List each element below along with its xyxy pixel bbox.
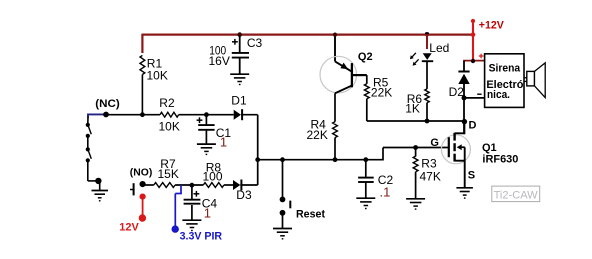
capacitor C4 [184,199,201,201]
node siren minus junction [462,95,467,100]
svg-text:3.3V PIR: 3.3V PIR [180,230,223,242]
resistor R3 [413,156,418,172]
svg-text:22K: 22K [307,128,328,142]
svg-text:10K: 10K [147,69,168,83]
wire R3 top [415,148,417,157]
wire C2 bottom stem [365,182,367,198]
label siren minus sign [477,93,481,95]
node R4 bus junction [333,157,338,162]
node C3 rail junction [237,32,242,37]
svg-text:10K: 10K [159,119,180,133]
node NO top contact [140,181,146,187]
svg-text:Led: Led [429,41,449,55]
wire D2 top [463,61,465,71]
transistor Q1 channel [453,133,455,141]
resistor R5 [364,84,369,99]
transistor Q1 body circle [441,135,470,164]
pushbutton Reset actuator [289,201,291,209]
node siren plus junction [471,59,475,63]
switch S2 lever [89,151,92,159]
wire R1 bottom [141,75,143,115]
wire row A right [241,114,258,116]
svg-text:1: 1 [220,134,227,149]
wire row A left [106,114,160,116]
node rail-12V junction [471,32,476,37]
capacitor C2 [358,177,374,179]
svg-text:+12V: +12V [479,20,505,32]
node C4 top [190,183,195,188]
resistor R1 [140,55,145,74]
node NC [103,112,109,118]
wire chain gnd stem [99,181,101,190]
node C1 top [204,112,209,117]
svg-text:iRF630: iRF630 [482,154,518,166]
led light arrow 1 [412,53,416,57]
wire C4 top stem [191,185,193,199]
transistor Q2 base lead [352,74,367,76]
wire row A mid [179,114,234,116]
svg-text:15K: 15K [158,167,179,181]
wire NC blue stub [88,113,106,115]
svg-text:D: D [469,119,477,131]
node bus left [255,157,260,162]
wire Led to R6 [426,62,428,89]
wire row B left [143,184,154,186]
wire R6 bottom [426,103,428,121]
wire D2 to D node [463,84,465,133]
svg-text:.1: .1 [380,185,391,200]
node R1 junction [140,112,145,117]
wire gate bus [383,147,449,149]
resistor R8 [203,183,224,188]
ground Q1 source [456,187,473,189]
svg-text:R3: R3 [421,156,437,170]
wire row B right1 [224,184,233,186]
wire NO 12V red [142,197,144,218]
wire +12V terminal drop [472,21,474,61]
diode D3 [233,180,240,190]
capacitor C3 [232,52,249,54]
wire siren plus [463,60,484,62]
svg-text:12V: 12V [119,221,139,233]
svg-text:G: G [430,137,439,149]
switch S2 contact b [86,158,90,162]
node C2 bus junction [363,157,368,162]
switch S1 lever [89,127,92,135]
svg-text:16V: 16V [209,54,230,68]
capacitor C4 plus sign [194,193,200,195]
node chain ground [95,178,101,184]
transistor Q1 gate bar [448,137,450,157]
pushbutton Reset contact a [280,197,286,203]
wire Q2 collector drop [334,93,336,121]
label siren plus sign [479,55,484,57]
wire R5 bottom [366,99,368,121]
node Q2 rail junction [333,33,337,37]
node 3.3V PIR terminal [172,225,179,232]
svg-text:D1: D1 [231,93,247,107]
wire R3 bottom [415,172,417,199]
switch S1 contact b [86,134,90,138]
svg-text:(NC): (NC) [95,98,120,110]
wire R4 bottom [334,138,336,160]
watermark box [492,186,540,202]
svg-text:(NO): (NO) [130,167,153,178]
node 12V terminal [139,214,146,221]
siren box [485,54,524,108]
wire cathode link [257,115,259,185]
svg-text:Ti2-CAW: Ti2-CAW [494,190,539,202]
speaker driver [524,77,527,79]
node NO bottom contact [140,194,146,200]
diode D2 cathode bar [458,71,469,73]
capacitor C1 [198,124,214,126]
wire C4 bottom stem [191,205,193,220]
pushbutton NO actuator [133,183,135,195]
resistor R7 [154,183,175,188]
svg-text:C3: C3 [247,36,263,50]
pushbutton Reset contact b [280,210,286,216]
svg-text:Reset: Reset [296,208,325,220]
switch S2 contact a [86,147,90,151]
svg-text:100: 100 [203,170,223,184]
transistor Q2 body circle [320,56,357,93]
transistor Q1 body arrow [457,144,462,150]
wire C3 bottom stem [239,58,241,74]
wire reset drop [282,160,284,197]
led LED cathode bar [422,60,433,62]
transistor Q1 drain lead [455,132,465,134]
resistor R4 [333,122,338,138]
wire chain mid [87,136,89,149]
capacitor C1 plus sign [197,119,203,121]
wire C3 top stem [239,35,241,52]
ground C4 [182,219,201,221]
svg-text:R2: R2 [159,96,175,110]
svg-text:Sirena: Sirena [489,62,521,74]
wire C2 top stem [365,160,367,177]
svg-text:S: S [468,170,475,182]
resistor R6 [425,89,429,103]
wire PIR blue [180,185,182,194]
svg-text:1: 1 [204,206,211,221]
led LED triangle [423,53,432,60]
node R6 bus2 junction [425,119,430,124]
svg-text:D3: D3 [236,188,252,202]
ground C3 [230,73,249,75]
switch S1 contact a [86,123,90,127]
node bus reset junction [280,157,285,162]
wire chain bottom [87,161,89,181]
wire Q2 emitter drop [334,34,336,62]
transistor Q1 source lead [455,160,465,162]
ground R3 [406,198,425,200]
led light arrow 2 [415,59,419,63]
transistor Q2 collector lead [335,86,352,94]
resistor R2 [160,112,179,117]
svg-text:1K: 1K [405,102,420,116]
wire bus2 [367,120,465,122]
svg-text:Q1: Q1 [482,142,497,154]
svg-text:Q2: Q2 [358,51,373,63]
transistor Q2 emitter lead [335,61,352,71]
ground C1 [197,143,216,145]
node R3 gate junction [413,145,418,150]
speaker horn [535,63,546,98]
wire C1 bottom stem [205,131,207,144]
node +12V terminal [471,19,475,23]
wire row B mid [175,184,203,186]
wire Led red stub [426,34,428,49]
svg-text:22K: 22K [371,86,392,100]
transistor Q2 base bar [351,63,353,87]
wire row B right2 [240,184,257,186]
wire +12V rail [142,33,473,35]
diode D1 [234,110,241,120]
wire NC chain top [87,117,89,125]
node D drain junction [462,119,467,124]
wire C1 top stem [205,115,207,125]
svg-text:nica.: nica. [487,89,510,101]
capacitor C3 plus sign [232,41,238,43]
ground Reset [273,228,292,230]
wire reset gnd stem [282,213,284,228]
wire R1 top red stub [141,34,143,53]
node Led rail junction [425,32,430,37]
ground C2 [356,197,375,199]
diode D2 [458,74,469,84]
transistor Q2 emitter arrow [340,63,348,70]
wire bus jog [382,148,384,161]
wire siren minus [464,97,485,99]
wire R5 top [366,75,368,84]
svg-text:47K: 47K [420,169,441,183]
wire bus [258,159,383,161]
ground NC chain [92,190,109,192]
